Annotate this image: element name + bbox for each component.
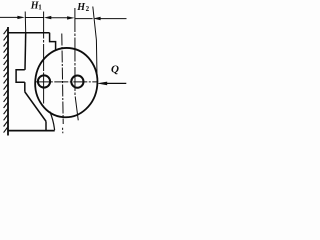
arrowhead H2 right (pointing left)	[93, 17, 100, 20]
lower-left diagonal edge	[25, 92, 46, 122]
bracket top edge	[8, 32, 50, 34]
dimension line H2 span	[75, 18, 93, 20]
wall line	[7, 27, 9, 136]
bracket top step	[50, 33, 56, 51]
boss ellipse (big circle)	[32, 45, 101, 120]
bottom edge	[8, 130, 55, 132]
bracket face below lug	[24, 82, 26, 92]
dimension line right outer segment	[100, 18, 127, 20]
boss vertical centerline	[62, 34, 63, 134]
Q arrowhead (pointing left)	[97, 82, 108, 86]
horizontal centerline through holes	[35, 81, 96, 83]
boss tail curve to base point	[50, 112, 55, 131]
wall hatching	[4, 28, 9, 133]
left hole vertical centerline / extension line H1 right	[43, 12, 45, 104]
right hole vertical centerline / extension line H2 left	[75, 8, 78, 121]
Q force arrow line	[105, 82, 126, 84]
bottom stub	[45, 121, 47, 130]
arrowhead H1 left (pointing right)	[17, 16, 24, 19]
svg-text:Q: Q	[111, 63, 119, 75]
svg-text:1: 1	[38, 3, 42, 11]
arrowhead H2 left (pointing right)	[67, 16, 74, 19]
arrowhead H1 right (pointing left)	[44, 16, 51, 19]
lug	[16, 70, 25, 82]
dimension line H1 span	[25, 17, 44, 19]
dimension line middle segment	[50, 17, 70, 19]
background	[0, 0, 128, 139]
dimension line left outer segment	[0, 16, 18, 18]
svg-text:2: 2	[86, 5, 90, 13]
extension line H2 right	[93, 7, 97, 82]
left hole	[38, 75, 50, 87]
right hole	[71, 76, 83, 88]
extension line / bracket left face upper	[24, 12, 27, 33]
